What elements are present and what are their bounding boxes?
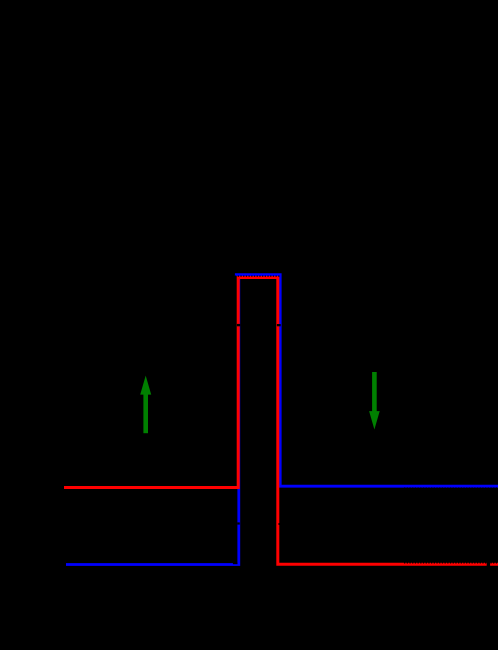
black dotted reference line over right blue level [404,487,498,489]
black dash notch on left barrier wall at lower energy level [237,522,239,524]
black dotted reference line over right red level [404,562,498,564]
red potential curve (biased band): left high level, barrier, right low level [64,278,498,565]
black dash notch on right barrier wall at upper energy level [277,324,281,326]
black dash notch on blue lower level before barrier corner [233,563,238,565]
blue potential curve (unbiased band): left low level, barrier, right high level [66,275,498,565]
black dotted reference line at barrier top [235,275,281,277]
black dash notch on right barrier wall at lower energy level [279,523,281,525]
black dash notch on left barrier wall at upper energy level [237,324,240,326]
green up arrow (left side) [140,376,151,434]
black dash gap in red right level [487,562,490,568]
green down arrow (right side) [369,372,380,430]
